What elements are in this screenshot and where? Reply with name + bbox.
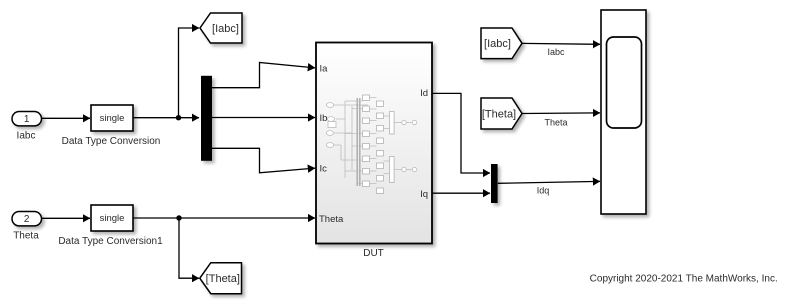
svg-text:[Theta]: [Theta] xyxy=(482,108,516,120)
svg-text:Ic: Ic xyxy=(320,164,328,175)
svg-text:Iabc: Iabc xyxy=(547,47,565,57)
svg-text:Ia: Ia xyxy=(320,63,329,74)
svg-text:Iq: Iq xyxy=(420,189,428,200)
svg-text:Data Type Conversion: Data Type Conversion xyxy=(62,136,161,147)
svg-text:single: single xyxy=(100,113,125,124)
svg-text:[Theta]: [Theta] xyxy=(206,273,240,285)
svg-text:Copyright 2020-2021 The MathWo: Copyright 2020-2021 The MathWorks, Inc. xyxy=(590,274,778,285)
svg-text:Iabc: Iabc xyxy=(17,131,36,142)
svg-text:Theta: Theta xyxy=(544,117,567,127)
svg-text:DUT: DUT xyxy=(363,248,384,259)
svg-text:single: single xyxy=(100,213,125,224)
svg-text:Id: Id xyxy=(420,88,428,99)
svg-text:Idq: Idq xyxy=(537,186,550,196)
svg-text:Data Type Conversion1: Data Type Conversion1 xyxy=(58,236,163,247)
svg-text:1: 1 xyxy=(24,114,30,125)
svg-text:Theta: Theta xyxy=(13,231,39,242)
svg-text:2: 2 xyxy=(24,214,30,225)
svg-text:[Iabc]: [Iabc] xyxy=(484,38,511,50)
svg-text:[Iabc]: [Iabc] xyxy=(212,23,239,35)
svg-text:Theta: Theta xyxy=(319,214,344,225)
svg-text:Ib: Ib xyxy=(320,113,328,124)
